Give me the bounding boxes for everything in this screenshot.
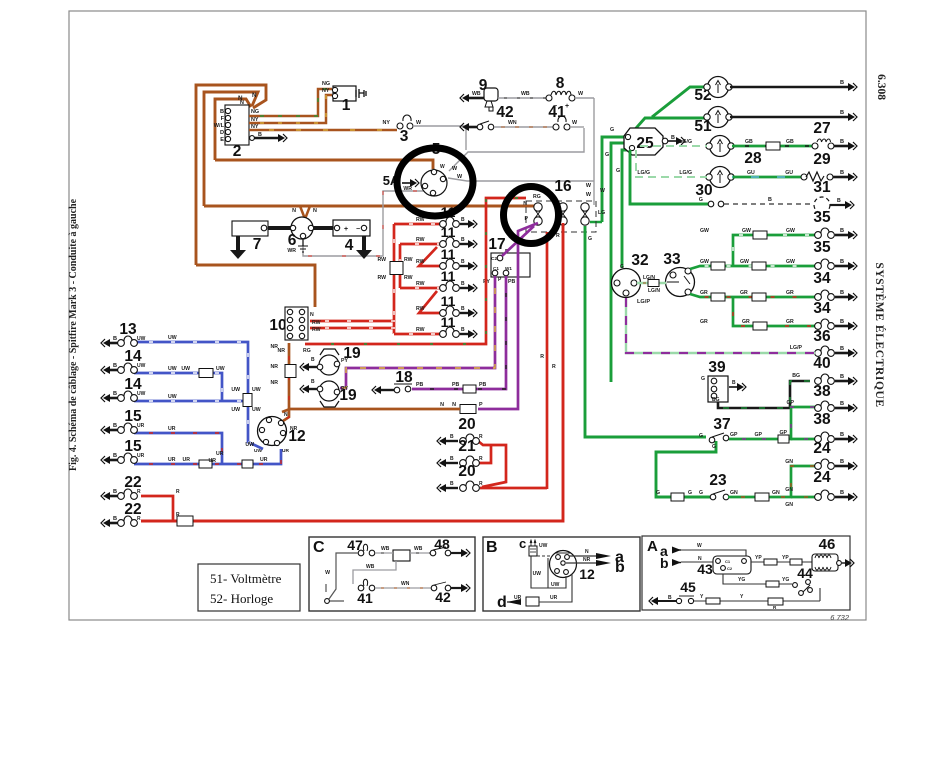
svg-text:27: 27 bbox=[813, 120, 830, 137]
wire UW connector to switch 12 bbox=[248, 405, 263, 449]
svg-text:RW: RW bbox=[416, 259, 425, 265]
svg-text:B: B bbox=[840, 80, 844, 86]
wire W windscreen feed vertical bbox=[593, 98, 595, 205]
svg-text:13: 13 bbox=[119, 321, 137, 338]
svg-text:UR: UR bbox=[514, 595, 522, 601]
svg-text:B: B bbox=[113, 423, 117, 429]
svg-text:RW: RW bbox=[404, 257, 413, 263]
svg-text:18: 18 bbox=[395, 369, 413, 386]
svg-text:RW: RW bbox=[416, 327, 425, 333]
lamp lamp 38b bbox=[835, 438, 848, 441]
fuse symbol in box B bbox=[529, 546, 537, 556]
wire W distributor to loom bbox=[448, 178, 594, 181]
svg-text:3: 3 bbox=[400, 128, 409, 145]
svg-text:B: B bbox=[311, 379, 315, 385]
svg-text:B: B bbox=[113, 453, 117, 459]
starter solenoid 6 bbox=[268, 226, 292, 230]
svg-text:34: 34 bbox=[813, 270, 831, 287]
svg-text:GR: GR bbox=[700, 319, 708, 325]
svg-text:GR: GR bbox=[700, 290, 708, 296]
wire UR lamp 15b to switch 12 bbox=[134, 449, 281, 464]
svg-text:35: 35 bbox=[813, 239, 831, 256]
svg-text:52- Horloge: 52- Horloge bbox=[210, 591, 273, 606]
earth lead from control box 2 bbox=[249, 137, 278, 139]
svg-text:C2: C2 bbox=[727, 566, 733, 571]
svg-text:UW: UW bbox=[252, 387, 261, 393]
svg-text:B: B bbox=[113, 489, 117, 495]
svg-text:UR: UR bbox=[183, 457, 191, 463]
svg-text:UW: UW bbox=[181, 366, 190, 372]
svg-text:NY: NY bbox=[383, 120, 391, 126]
svg-text:BG: BG bbox=[792, 373, 800, 379]
svg-text:B: B bbox=[113, 391, 117, 397]
svg-text:UW: UW bbox=[168, 335, 177, 341]
svg-text:25: 25 bbox=[636, 135, 654, 152]
svg-text:NG: NG bbox=[322, 81, 330, 87]
svg-text:G: G bbox=[712, 444, 716, 450]
svg-text:UR: UR bbox=[550, 595, 558, 601]
wire NY control box to coil sw bbox=[249, 95, 332, 123]
svg-text:20: 20 bbox=[458, 416, 475, 433]
svg-text:W/L: W/L bbox=[214, 123, 225, 129]
wire GR riser to lamp 34b bbox=[733, 297, 815, 326]
svg-text:RW: RW bbox=[312, 327, 321, 333]
lead b in box B bbox=[566, 562, 596, 564]
voltage stabilizer 25 bbox=[624, 128, 663, 155]
svg-text:G: G bbox=[605, 152, 609, 158]
svg-text:GP: GP bbox=[780, 430, 788, 436]
svg-text:LG/P: LG/P bbox=[790, 345, 803, 351]
svg-text:N: N bbox=[440, 402, 444, 408]
wire UW lamp 13 to connector bbox=[134, 342, 248, 395]
svg-text:LG: LG bbox=[598, 210, 605, 216]
svg-text:39: 39 bbox=[708, 359, 726, 376]
svg-text:43: 43 bbox=[697, 561, 713, 577]
wire G switch 37 to switch 23 bbox=[656, 441, 716, 497]
svg-text:R: R bbox=[137, 489, 141, 495]
svg-text:51- Voltmètre: 51- Voltmètre bbox=[210, 571, 282, 586]
svg-text:UW: UW bbox=[252, 407, 261, 413]
svg-text:R: R bbox=[137, 516, 141, 522]
svg-text:C2: C2 bbox=[491, 256, 497, 261]
lamp lamp 40 bbox=[835, 380, 848, 383]
svg-text:NR: NR bbox=[290, 426, 298, 432]
svg-text:UR: UR bbox=[260, 457, 268, 463]
svg-text:UW: UW bbox=[137, 336, 146, 342]
svg-text:RW: RW bbox=[312, 320, 321, 326]
svg-text:NR: NR bbox=[271, 380, 279, 386]
wire N drop into solenoid 6 bbox=[300, 206, 310, 219]
svg-text:LG/G: LG/G bbox=[637, 170, 650, 176]
svg-text:UW: UW bbox=[245, 442, 254, 448]
wire RW row to lamp 11d bbox=[400, 287, 442, 290]
svg-text:GN: GN bbox=[785, 487, 793, 493]
svg-text:R: R bbox=[556, 233, 560, 239]
svg-text:B: B bbox=[450, 456, 454, 462]
svg-text:UW: UW bbox=[137, 391, 146, 397]
svg-text:B: B bbox=[840, 432, 844, 438]
svg-text:WB: WB bbox=[381, 546, 390, 552]
lamp lamp 35b bbox=[835, 265, 848, 268]
svg-text:GP: GP bbox=[755, 432, 763, 438]
svg-text:YG: YG bbox=[738, 577, 745, 583]
svg-text:NG: NG bbox=[251, 109, 259, 115]
svg-text:N: N bbox=[284, 412, 288, 418]
svg-text:RW: RW bbox=[377, 257, 386, 263]
svg-text:B: B bbox=[461, 237, 465, 243]
svg-text:B: B bbox=[461, 306, 465, 312]
svg-text:PB: PB bbox=[479, 382, 486, 388]
connector on NR wire bbox=[285, 365, 296, 378]
svg-text:NR: NR bbox=[271, 344, 279, 350]
svg-text:NY: NY bbox=[251, 117, 259, 123]
svg-text:RW: RW bbox=[377, 275, 386, 281]
svg-text:UW: UW bbox=[168, 366, 177, 372]
wire LG/P sender 32 to lamp 36 bbox=[626, 298, 815, 353]
wire BG switch 39 to lamp 40 bbox=[718, 381, 810, 408]
wire GN switch 23 to lamps 24 bbox=[728, 466, 815, 497]
wire R lamp 20b to vertical bbox=[480, 487, 547, 490]
wire UW lamp 14b bbox=[134, 400, 243, 403]
svg-text:N: N bbox=[252, 92, 257, 99]
svg-text:B: B bbox=[840, 401, 844, 407]
svg-text:GU: GU bbox=[785, 170, 793, 176]
svg-text:GW: GW bbox=[700, 228, 709, 234]
wire R lamp16 to stop lamps bbox=[546, 232, 549, 489]
svg-text:NR: NR bbox=[583, 557, 591, 563]
wire GP stub to lamp 38b bbox=[791, 438, 815, 441]
earthing box 7 bbox=[232, 221, 268, 236]
svg-text:B: B bbox=[220, 109, 224, 115]
svg-text:24: 24 bbox=[813, 440, 831, 457]
wire GU temp gauge to sender 29 bbox=[732, 176, 802, 179]
control box 2 bbox=[225, 105, 249, 145]
svg-text:R: R bbox=[176, 489, 180, 495]
wire GW riser to lamp 35a bbox=[733, 235, 815, 266]
wire W switch 41 to distributor 5 bbox=[449, 128, 584, 171]
svg-text:Fig. 4. Schéma de câblage - Sp: Fig. 4. Schéma de câblage - Spitfire Mar… bbox=[68, 198, 79, 471]
svg-text:B: B bbox=[450, 434, 454, 440]
svg-text:B: B bbox=[113, 336, 117, 342]
svg-text:42: 42 bbox=[496, 104, 513, 121]
svg-text:W: W bbox=[697, 543, 702, 549]
svg-text:F: F bbox=[221, 116, 225, 122]
svg-text:W1: W1 bbox=[505, 266, 512, 271]
svg-text:31: 31 bbox=[813, 179, 831, 196]
svg-text:G: G bbox=[610, 127, 614, 133]
svg-text:R: R bbox=[479, 481, 483, 487]
svg-text:PY: PY bbox=[341, 386, 348, 392]
svg-text:GW: GW bbox=[742, 228, 751, 234]
lamp lamp 24a bbox=[835, 465, 848, 468]
svg-text:NY: NY bbox=[251, 124, 259, 130]
svg-text:B: B bbox=[461, 259, 465, 265]
svg-text:GW: GW bbox=[740, 259, 749, 265]
svg-text:GN: GN bbox=[772, 490, 780, 496]
lamp lamp 38a bbox=[835, 407, 848, 410]
svg-text:R: R bbox=[479, 456, 483, 462]
svg-text:NR: NR bbox=[278, 348, 286, 354]
svg-text:B: B bbox=[311, 357, 315, 363]
svg-text:C1: C1 bbox=[725, 559, 731, 564]
emphasis circle around lamp unit 16 bbox=[504, 187, 559, 244]
svg-text:42: 42 bbox=[435, 589, 451, 605]
svg-text:B: B bbox=[461, 217, 465, 223]
svg-text:+: + bbox=[344, 226, 348, 233]
page border frame bbox=[69, 11, 866, 620]
svg-text:G: G bbox=[688, 490, 692, 496]
svg-text:c: c bbox=[519, 536, 526, 551]
svg-text:N: N bbox=[292, 208, 296, 214]
wire NG control box to coil bbox=[249, 89, 332, 116]
svg-text:GN: GN bbox=[730, 490, 738, 496]
connector on P wire bbox=[460, 405, 476, 414]
inset box A bbox=[642, 536, 850, 610]
svg-text:29: 29 bbox=[813, 151, 831, 168]
svg-text:UR: UR bbox=[282, 448, 289, 454]
svg-text:B: B bbox=[840, 228, 844, 234]
wire GW sender to lamp 35b bbox=[690, 266, 815, 269]
wire RW diag to lamp 11e bbox=[419, 291, 442, 313]
wire W points 3 to junction bbox=[413, 126, 466, 150]
svg-text:6: 6 bbox=[288, 232, 297, 249]
svg-text:LG/N: LG/N bbox=[648, 288, 660, 294]
svg-text:WB: WB bbox=[472, 91, 481, 97]
svg-text:G: G bbox=[701, 376, 705, 382]
wire UR lamp 15a bbox=[134, 433, 222, 463]
svg-text:10: 10 bbox=[269, 317, 286, 334]
wire WN lamp 41 to switch 42 box C bbox=[375, 587, 431, 589]
wire WB relay to lamp 41 in box C bbox=[353, 561, 396, 584]
svg-text:38: 38 bbox=[813, 411, 831, 428]
svg-text:UR: UR bbox=[209, 458, 217, 464]
svg-text:UW: UW bbox=[168, 394, 177, 400]
svg-text:N: N bbox=[585, 549, 589, 555]
svg-text:B: B bbox=[840, 459, 844, 465]
svg-text:UR: UR bbox=[137, 423, 145, 429]
svg-text:N: N bbox=[452, 402, 456, 408]
wire LG stub into lamp unit 16 bbox=[590, 221, 602, 224]
svg-text:34: 34 bbox=[813, 300, 831, 317]
svg-text:WB: WB bbox=[414, 546, 423, 552]
svg-text:GB: GB bbox=[745, 139, 753, 145]
svg-text:A: A bbox=[647, 538, 658, 555]
wire YP relay 43 to coil 46 bbox=[751, 561, 812, 563]
wire GB fuel gauge to sender 27 bbox=[732, 145, 812, 148]
svg-text:UW: UW bbox=[216, 366, 225, 372]
wire B oil switch to lamp 31 (dashed) bbox=[724, 203, 812, 205]
svg-text:P: P bbox=[479, 402, 483, 408]
ignition coil 1 bbox=[333, 86, 356, 101]
svg-text:W: W bbox=[440, 164, 445, 170]
svg-text:G: G bbox=[616, 168, 620, 174]
wire WB horn to pump bbox=[498, 97, 548, 99]
svg-text:C: C bbox=[313, 539, 325, 556]
wire PY flasher 17 to flashers 19 bbox=[340, 276, 495, 388]
contact breaker 3 bbox=[403, 115, 411, 121]
svg-text:RW: RW bbox=[416, 306, 425, 312]
svg-text:GW: GW bbox=[700, 259, 709, 265]
svg-text:6 732: 6 732 bbox=[830, 613, 850, 622]
svg-text:G: G bbox=[699, 433, 703, 439]
svg-text:G: G bbox=[620, 264, 624, 270]
svg-text:44: 44 bbox=[797, 565, 813, 581]
svg-text:GN: GN bbox=[785, 502, 793, 508]
svg-text:B: B bbox=[113, 516, 117, 522]
svg-text:NY: NY bbox=[322, 88, 330, 94]
svg-text:UW: UW bbox=[231, 407, 240, 413]
svg-text:32: 32 bbox=[631, 252, 648, 269]
svg-text:20: 20 bbox=[458, 463, 475, 480]
svg-text:RW: RW bbox=[416, 281, 425, 287]
svg-text:N: N bbox=[313, 208, 317, 214]
svg-text:B: B bbox=[840, 490, 844, 496]
wire RG loop fusebox 10 to lamp 16 bbox=[305, 198, 526, 344]
svg-text:UR: UR bbox=[216, 451, 224, 457]
svg-text:B: B bbox=[486, 539, 498, 556]
svg-text:GB: GB bbox=[786, 139, 794, 145]
svg-text:B: B bbox=[113, 363, 117, 369]
svg-text:UW: UW bbox=[137, 363, 146, 369]
wire RW fusebox 10 feed b bbox=[310, 327, 395, 330]
wire G lamp 16 to switch 37 bbox=[585, 226, 706, 437]
svg-text:G: G bbox=[699, 490, 703, 496]
svg-text:RG: RG bbox=[303, 348, 311, 354]
connector on R wire 22 bbox=[177, 516, 193, 526]
svg-text:b: b bbox=[660, 555, 669, 571]
wire R lamp16 long feed bbox=[141, 223, 563, 521]
wire G feed to voltmeter 51 bbox=[629, 118, 706, 136]
svg-text:24: 24 bbox=[813, 469, 831, 486]
svg-text:LG/G: LG/G bbox=[679, 170, 692, 176]
svg-text:YP: YP bbox=[782, 555, 789, 561]
svg-text:16: 16 bbox=[554, 178, 572, 195]
svg-text:17: 17 bbox=[488, 236, 505, 253]
svg-text:B: B bbox=[837, 198, 841, 204]
svg-text:8: 8 bbox=[556, 75, 565, 92]
wire N feed to fusebox 10 bbox=[196, 265, 315, 307]
svg-text:B: B bbox=[840, 374, 844, 380]
wire LG/G stabilizer to fuel gauge (dashed) bbox=[640, 145, 707, 147]
wire UW fuse to switch (dashed) (dashed) bbox=[537, 555, 551, 557]
ground below 7 bbox=[236, 236, 240, 250]
wire RW row to lamp 11a bbox=[394, 223, 442, 226]
wire N loop outer from solenoid to control box bbox=[196, 85, 266, 265]
svg-text:21: 21 bbox=[458, 438, 476, 455]
legend box 51/52 bbox=[198, 564, 300, 611]
svg-text:YG: YG bbox=[782, 577, 789, 583]
svg-text:UR: UR bbox=[168, 457, 176, 463]
wire N feed along top of solenoid to lamp unit 16 bbox=[204, 205, 536, 208]
wire G feed to clock 52 bbox=[652, 87, 706, 117]
wire UW lamp 14a bbox=[134, 373, 222, 400]
wire P lamp 16 to flasher 17 bbox=[502, 226, 534, 256]
wire PB flasher 17 to switch 18 bbox=[412, 276, 506, 389]
wire RW diag to lamp 11c bbox=[419, 247, 442, 266]
wire RW row to lamp 11f bbox=[394, 333, 442, 336]
wire RW riser right bbox=[399, 244, 402, 288]
svg-text:WR: WR bbox=[287, 248, 296, 254]
svg-text:B: B bbox=[840, 346, 844, 352]
wire G main vertical 2 (to switch 39) bbox=[611, 143, 627, 382]
wire B clock to earth bbox=[730, 86, 848, 89]
wire N loop inner bbox=[215, 99, 251, 160]
connectors on blue wires bbox=[199, 369, 213, 378]
svg-text:D: D bbox=[220, 130, 224, 136]
svg-text:UW: UW bbox=[231, 387, 240, 393]
lamp lamp 24b bbox=[835, 496, 848, 499]
svg-text:B: B bbox=[732, 380, 736, 386]
svg-text:7: 7 bbox=[253, 236, 262, 253]
svg-text:WN: WN bbox=[401, 581, 410, 587]
svg-text:W: W bbox=[325, 570, 330, 576]
emphasis circle around distributor 5 bbox=[397, 148, 473, 216]
svg-text:36: 36 bbox=[813, 328, 831, 345]
svg-text:B: B bbox=[258, 132, 262, 138]
lamp lamp 36 bbox=[835, 352, 848, 355]
wire LG/N sender 32 to 33 bbox=[637, 282, 666, 284]
wire LG/G stabilizer to temp gauge (dashed) bbox=[636, 150, 707, 177]
svg-text:41: 41 bbox=[548, 104, 566, 121]
wire WR solenoid 6 to distributor 5 bbox=[303, 191, 426, 256]
wire NR fusebox to ignition switch 12 bbox=[283, 343, 289, 421]
svg-text:WB: WB bbox=[366, 564, 375, 570]
svg-text:WR: WR bbox=[403, 186, 412, 192]
wire G main vertical 3 (to gauge tank 32) bbox=[622, 150, 630, 268]
connector on RW vertical bbox=[390, 262, 403, 275]
svg-text:PB: PB bbox=[416, 382, 423, 388]
svg-text:PB: PB bbox=[452, 382, 459, 388]
inset box C bbox=[309, 537, 475, 611]
wire RW riser left bbox=[393, 224, 396, 334]
svg-text:RW: RW bbox=[404, 275, 413, 281]
connector on PB wire bbox=[463, 385, 476, 393]
svg-text:GR: GR bbox=[786, 319, 794, 325]
svg-text:PB: PB bbox=[508, 279, 515, 285]
wire RW fusebox 10 feed a bbox=[310, 320, 395, 323]
svg-text:d: d bbox=[497, 594, 507, 611]
svg-text:4: 4 bbox=[345, 237, 354, 254]
svg-text:GW: GW bbox=[786, 228, 795, 234]
svg-text:GP: GP bbox=[787, 400, 795, 406]
svg-text:45: 45 bbox=[680, 579, 696, 595]
svg-text:RW: RW bbox=[416, 237, 425, 243]
svg-text:B: B bbox=[840, 170, 844, 176]
svg-text:UW: UW bbox=[551, 582, 560, 588]
lamp lamp 34b bbox=[835, 325, 848, 328]
svg-text:33: 33 bbox=[663, 251, 681, 268]
wire N loop mid bbox=[204, 92, 258, 206]
wire WB relay to switch 48 bbox=[410, 552, 430, 554]
wire GP switch 37 to lamps 38 bbox=[729, 407, 815, 439]
svg-text:12: 12 bbox=[579, 566, 595, 582]
svg-text:GW: GW bbox=[786, 259, 795, 265]
svg-text:UW: UW bbox=[533, 571, 542, 577]
ground below 6 bbox=[298, 239, 308, 252]
wire G feed to oil switch 30 bbox=[630, 150, 708, 204]
svg-text:35: 35 bbox=[813, 209, 831, 226]
svg-text:RG: RG bbox=[533, 194, 541, 200]
lamp lamp 35a bbox=[835, 234, 848, 237]
svg-text:N: N bbox=[523, 201, 527, 207]
svg-text:R: R bbox=[540, 354, 544, 360]
ignition switch 12 in box B bbox=[550, 551, 577, 578]
svg-text:41: 41 bbox=[357, 590, 373, 606]
svg-text:b: b bbox=[615, 559, 625, 576]
wire W pump to loom bbox=[575, 97, 594, 99]
wire P lamp 16 to ignition switch 12 bbox=[478, 223, 538, 409]
svg-text:R: R bbox=[479, 434, 483, 440]
